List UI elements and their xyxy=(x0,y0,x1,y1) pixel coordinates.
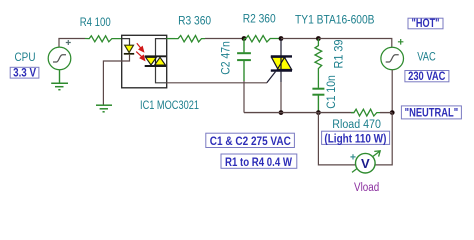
annotation box C1 C2 rating xyxy=(206,133,295,147)
LED inside IC1 xyxy=(124,45,134,54)
annotation box 3.3 V xyxy=(10,67,39,78)
resistor R2 360 xyxy=(244,36,281,42)
wire CPU bottom to ground xyxy=(59,70,61,83)
plus sign CPU source xyxy=(66,40,71,45)
voltmeter Vload circle xyxy=(356,153,376,173)
svg-text:R4 100: R4 100 xyxy=(80,17,111,29)
junction node TY1 top xyxy=(279,36,284,41)
voltmeter Vload arrow xyxy=(352,151,380,173)
waveform glyph CPU xyxy=(53,55,66,62)
svg-text:R3 360: R3 360 xyxy=(178,16,211,28)
wire node to TY1 pin xyxy=(280,39,282,57)
svg-text:TY1 BTA16-600B: TY1 BTA16-600B xyxy=(295,15,375,27)
wire TY1 pin bottom xyxy=(280,71,282,82)
triac TY1 xyxy=(271,56,292,70)
ground LED cathode xyxy=(96,105,112,112)
wire gate to opto xyxy=(167,82,268,84)
wire bottom rail left xyxy=(244,112,354,114)
capacitor C2 47n xyxy=(237,39,251,82)
resistor R3 360 xyxy=(175,36,205,42)
wire V meter right xyxy=(375,113,392,165)
svg-text:C1 & C2 275 VAC: C1 & C2 275 VAC xyxy=(210,136,291,148)
wire CPU source top stub xyxy=(58,39,60,48)
wire TY1 gate diagonal xyxy=(267,72,276,83)
wire Rload to VAC node xyxy=(380,112,392,114)
svg-text:R1 39: R1 39 xyxy=(334,40,346,69)
wire opto triac bottom out of box xyxy=(156,67,167,83)
capacitor C1 10n xyxy=(312,89,324,113)
wire VAC bottom to rail xyxy=(391,70,393,113)
svg-text:(Light 110 W): (Light 110 W) xyxy=(324,134,386,146)
svg-text:VAC: VAC xyxy=(417,52,436,64)
junction node C2 top xyxy=(242,36,247,41)
source VG1 CPU circle xyxy=(48,47,71,70)
red light arrows xyxy=(136,43,144,60)
svg-text:V: V xyxy=(361,156,370,171)
plus sign voltmeter xyxy=(350,154,355,159)
svg-text:CPU: CPU xyxy=(15,52,36,64)
wire R3 to node C2 xyxy=(205,38,244,40)
annotation box 230 VAC xyxy=(405,71,449,82)
wire top rail TY1 to R1 xyxy=(281,38,318,40)
ground CPU xyxy=(51,83,68,89)
wire inside box to LED anode xyxy=(122,39,130,45)
svg-text:"NEUTRAL": "NEUTRAL" xyxy=(405,107,459,119)
svg-text:Rload 470: Rload 470 xyxy=(332,119,381,131)
wire V meter left xyxy=(318,113,355,165)
svg-text:R1 to R4 0.4 W: R1 to R4 0.4 W xyxy=(225,157,292,169)
source VAC circle xyxy=(381,47,404,70)
wire top rail CPU to R4 xyxy=(58,38,85,40)
svg-text:IC1 MOC3021: IC1 MOC3021 xyxy=(140,100,199,112)
junction node VAC bottom xyxy=(390,110,395,115)
junction node C1 bottom xyxy=(316,110,321,115)
wire top rail R1 to VAC corner xyxy=(318,39,391,48)
opto triac inside IC1 xyxy=(145,56,167,66)
waveform glyph VAC xyxy=(386,55,399,62)
svg-text:3.3 V: 3.3 V xyxy=(13,68,36,80)
wire LED cathode to ground xyxy=(103,55,129,105)
plus sign VAC xyxy=(398,39,404,45)
junction node R1 top xyxy=(316,36,321,41)
resistor R4 100 xyxy=(85,36,122,42)
svg-text:R2 360: R2 360 xyxy=(243,14,276,26)
annotation box NEUTRAL xyxy=(401,106,461,119)
wire C2 bottom to rail xyxy=(243,81,245,113)
annotation box HOT xyxy=(408,18,443,29)
resistor R1 39 (vertical) xyxy=(315,39,322,88)
annotation box Light 110 W xyxy=(322,131,390,144)
annotation box R rating xyxy=(221,154,297,168)
wire opto triac top to pin xyxy=(156,39,167,56)
svg-text:C1 10n: C1 10n xyxy=(326,75,338,109)
svg-text:230 VAC: 230 VAC xyxy=(408,71,445,83)
resistor Rload 470 xyxy=(351,109,380,116)
junction node TY1 bottom xyxy=(279,110,284,115)
svg-text:C2 47n: C2 47n xyxy=(220,41,232,75)
wire TY1 bottom to rail xyxy=(280,82,282,113)
svg-text:Vload: Vload xyxy=(354,182,379,194)
IC1 optocoupler box xyxy=(122,35,167,88)
svg-text:"HOT": "HOT" xyxy=(412,18,440,30)
wire box to R3 xyxy=(167,38,176,40)
